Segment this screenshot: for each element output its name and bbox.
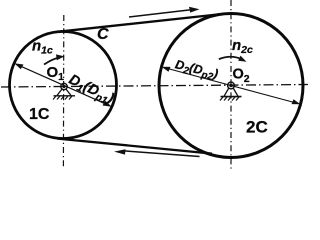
vertical center line of pulley 2C: [230, 0, 232, 170]
svg-text:1C: 1C: [29, 106, 50, 123]
pulley 2C circle: [159, 14, 303, 158]
svg-text:C: C: [97, 26, 109, 43]
belt top span: [57, 14, 223, 32]
svg-text:2C: 2C: [246, 118, 268, 137]
belt bottom span: [58, 139, 213, 154]
pulley 1C circle: [10, 32, 117, 139]
pivot support O2: [220, 82, 242, 100]
belt motion arrow top: [129, 7, 200, 17]
diameter line D1 of pulley 1C: [14, 63, 112, 106]
belt motion arrow bottom: [114, 149, 200, 156]
rotation arrow n1c: [44, 54, 65, 64]
vertical center line of pulley 1C: [62, 15, 64, 168]
diameter line D2 of pulley 2C: [162, 67, 301, 104]
rotation arrow n2c: [219, 56, 247, 62]
pivot support O1: [53, 83, 75, 99]
horizontal center line O1-O2: [1, 85, 308, 88]
